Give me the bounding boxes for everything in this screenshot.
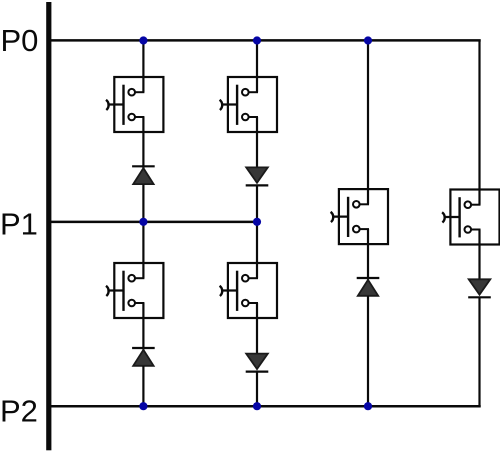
wire Q5 to D5 [367, 244, 369, 279]
wire P1 horizontal rail [48, 221, 258, 224]
wire P1 to Q3 [142, 221, 144, 263]
transistor Q5 [331, 189, 388, 244]
wire D3 to P2 [142, 366, 144, 407]
wire D5 to P2 [367, 296, 369, 407]
wire P0 to Q2 (column 2) [256, 41, 258, 78]
junction dot P1 column 1 [139, 218, 147, 226]
junction dot P0 column 1 [139, 36, 147, 44]
wire D4 to P2 [256, 371, 258, 407]
wire Q6 to D6 [478, 245, 480, 280]
diode D6 [468, 279, 491, 297]
wire Q1 to D1 [142, 132, 144, 168]
junction dot P2 column 3 [364, 402, 372, 410]
wire D6 to P2 [478, 297, 480, 408]
svg-text:P2: P2 [0, 394, 38, 429]
junction dot P2 column 1 [139, 402, 147, 410]
svg-text:P1: P1 [0, 206, 38, 241]
junction dot P0 column 2 [253, 36, 261, 44]
wire Q4 to D4 [256, 318, 258, 354]
junction dot P1 column 2 [253, 218, 261, 226]
wire P1 to Q4 [256, 221, 258, 263]
diode D3 [132, 348, 155, 366]
junction dot P0 column 3 [364, 36, 372, 44]
wire P2 horizontal rail [48, 405, 481, 408]
transistor Q3 [106, 263, 163, 318]
bus bar (left vertical rail) [46, 2, 51, 450]
transistor Q4 [220, 263, 277, 318]
wire Q2 to D2 [256, 132, 258, 168]
svg-text:P0: P0 [1, 23, 39, 58]
diode D5 [357, 278, 380, 296]
transistor Q1 [106, 77, 163, 132]
transistor Q2 [220, 77, 277, 132]
wire Q3 to D3 [142, 318, 144, 350]
wire P0 horizontal rail [48, 39, 481, 42]
diode D1 [132, 166, 155, 184]
wire D1 to P1 [142, 185, 144, 223]
wire P0 corner to Q6 (column 4) [478, 40, 480, 190]
diode D4 [246, 354, 269, 372]
wire P0 to Q1 (column 1) [142, 41, 144, 78]
junction dot P2 column 2 [253, 402, 261, 410]
diode D2 [246, 167, 269, 185]
transistor Q6 [442, 190, 499, 245]
wire D2 to P1 [256, 185, 258, 223]
wire P0 to Q5 (column 3) [367, 41, 369, 190]
